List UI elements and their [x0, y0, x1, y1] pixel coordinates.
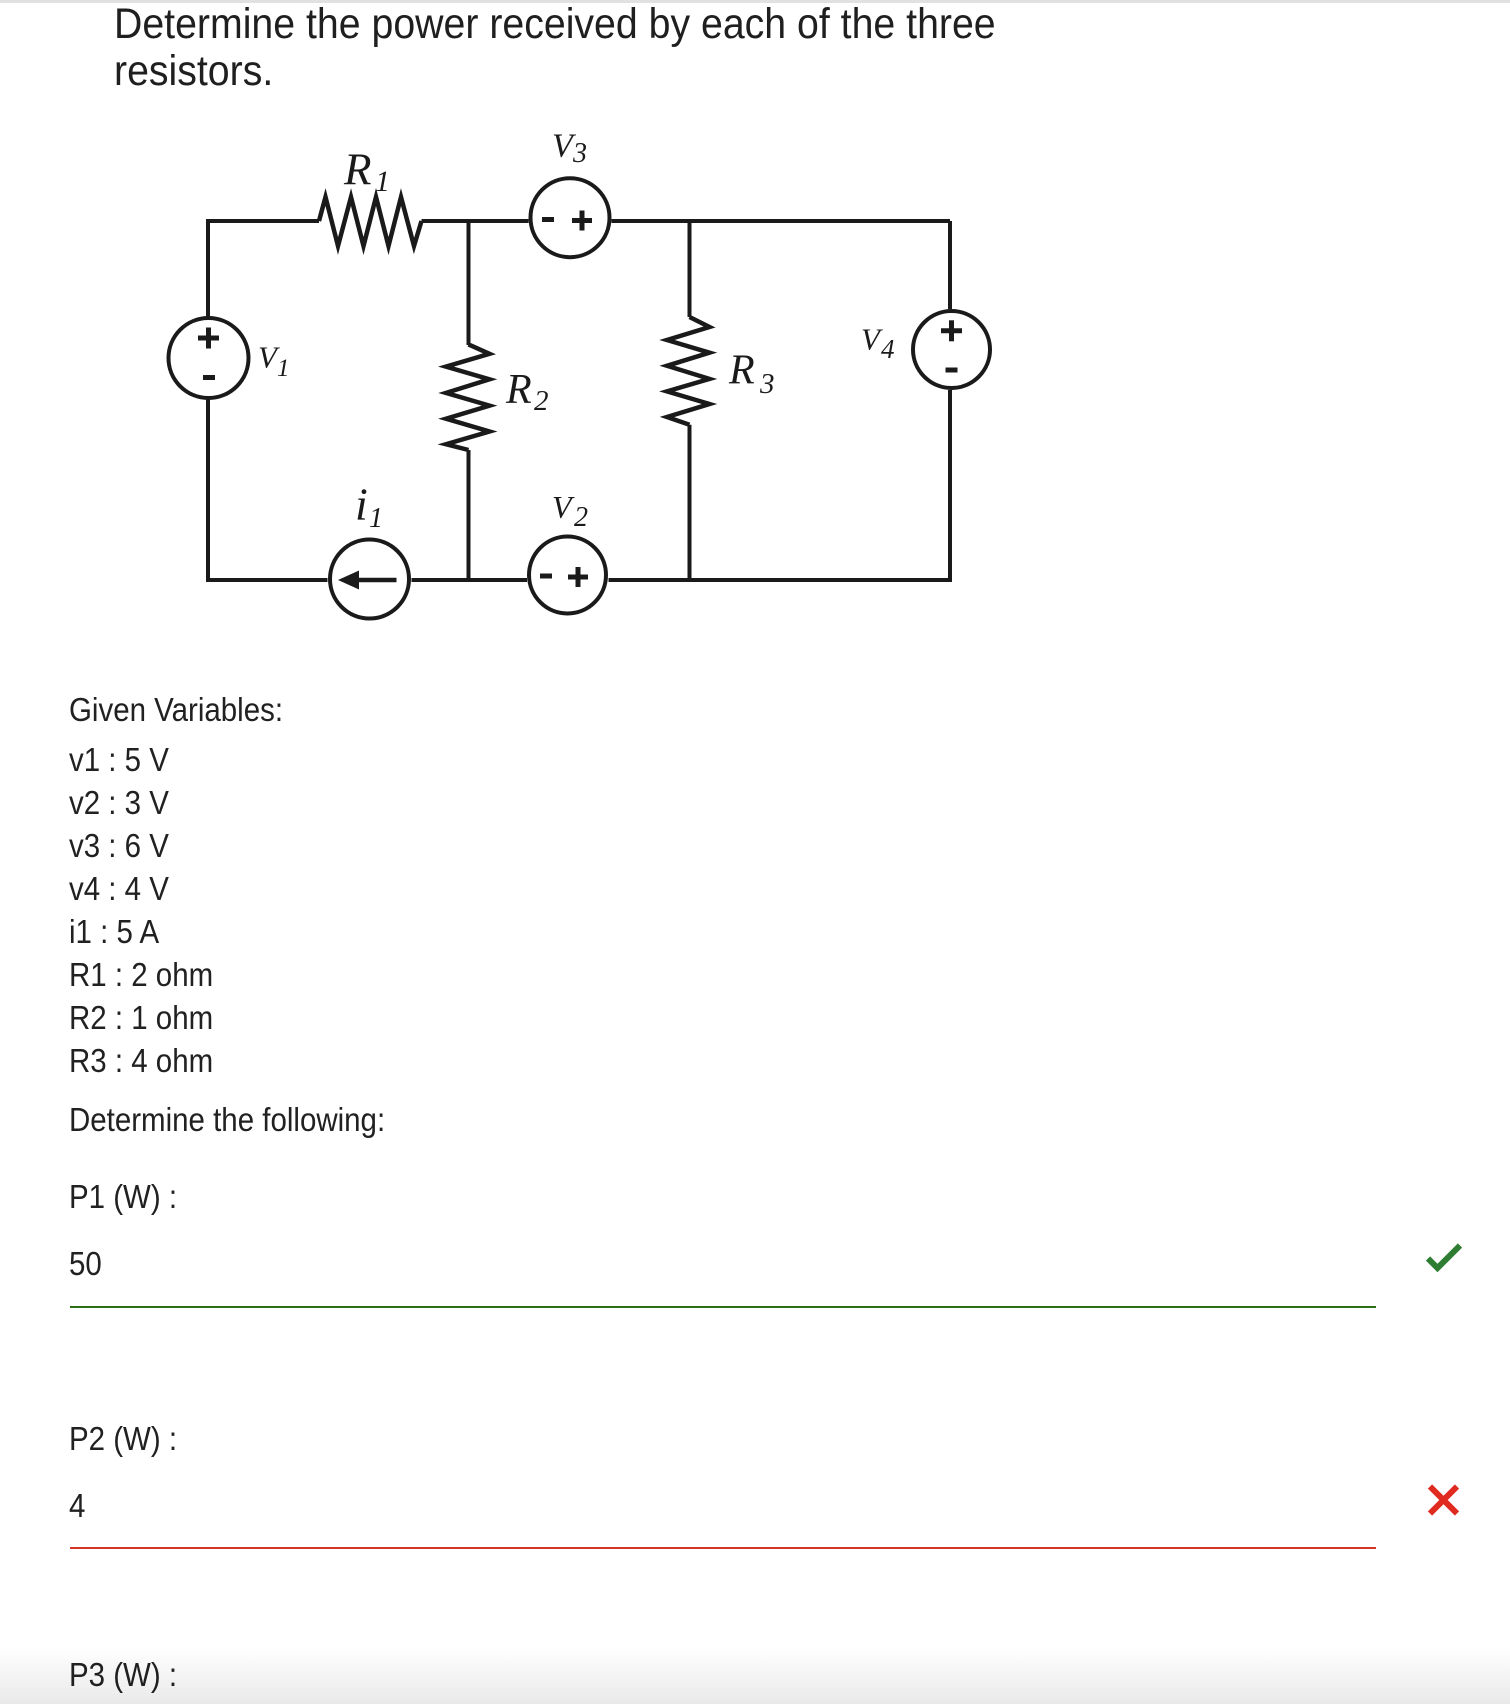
V2 minus sign	[540, 574, 552, 579]
wire R1 to V3	[422, 219, 529, 223]
wire R3 branch top lead	[688, 221, 692, 317]
voltage source V3	[531, 178, 610, 257]
V1 plus sign	[198, 336, 219, 341]
P1 green underline	[70, 1306, 1376, 1308]
circuit schematic	[0, 0, 1510, 700]
resistor R2	[446, 344, 490, 450]
V2 plus sign	[568, 575, 588, 580]
wire top-right corner down to V4	[948, 221, 952, 309]
svg-text:1: 1	[277, 355, 290, 382]
svg-text:3: 3	[572, 138, 587, 169]
current source i1	[330, 540, 409, 619]
bottom gradient shadow	[0, 1648, 1510, 1704]
resistor R1	[319, 197, 422, 246]
V4 plus sign	[941, 328, 962, 333]
P1 question	[69, 1180, 177, 1213]
svg-text:V: V	[552, 489, 575, 525]
svg-text:i: i	[355, 479, 368, 530]
wire R3 branch bottom lead	[688, 425, 692, 580]
V4 minus sign	[946, 368, 958, 373]
svg-text:2: 2	[534, 385, 549, 417]
V1 minus sign	[203, 375, 215, 380]
node bottom of R2 branch	[468, 579, 470, 581]
svg-text:1: 1	[369, 503, 383, 534]
P2 wrong X mark	[1419, 1478, 1467, 1526]
P2 red underline	[70, 1547, 1376, 1549]
wire top-left (V1 top to R1 left)	[208, 221, 319, 317]
svg-text:R: R	[343, 145, 372, 195]
P2 question	[69, 1422, 177, 1455]
V3 minus sign	[542, 217, 554, 222]
resistor R3	[667, 317, 710, 425]
P3 question	[69, 1658, 177, 1691]
title line 2	[114, 50, 273, 93]
V3 plus sign	[572, 218, 592, 223]
i1 arrow	[344, 578, 397, 583]
top gray strip	[0, 0, 1510, 3]
wire V4 to bottom-right corner	[609, 390, 951, 580]
svg-text:V: V	[861, 321, 883, 356]
voltage source V2	[529, 537, 606, 614]
wire R2 branch top lead	[467, 221, 471, 345]
wire i1 to bottom-left corner up to V1	[208, 399, 328, 580]
node top of R2 branch	[468, 220, 470, 222]
svg-text:R: R	[505, 367, 532, 413]
wire V3 to top-right corner	[612, 219, 951, 223]
svg-text:3: 3	[759, 368, 775, 400]
node top of R3 branch	[689, 220, 691, 222]
given variables	[69, 693, 283, 726]
wire R2 branch bottom lead	[467, 450, 471, 580]
svg-text:4: 4	[881, 334, 895, 364]
voltage source V1	[169, 318, 249, 398]
svg-text:R: R	[728, 348, 755, 394]
wire V2 to i1	[412, 578, 528, 582]
svg-text:2: 2	[574, 502, 588, 533]
title line 1	[114, 3, 996, 46]
voltage source V4	[913, 311, 990, 388]
svg-text:1: 1	[375, 165, 390, 198]
P1 correct checkmark	[1420, 1234, 1468, 1282]
